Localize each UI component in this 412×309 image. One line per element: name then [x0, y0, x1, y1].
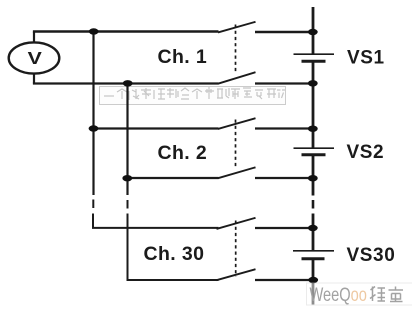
svg-text:VS30: VS30 — [347, 245, 396, 266]
wire vertical line A upper — [92, 32, 94, 196]
wire row3 right to bus — [255, 127, 313, 129]
battery VS30 plates — [293, 250, 334, 252]
node bus row4 — [308, 175, 318, 181]
switch S30b blade (Ch.30 bottom) — [217, 269, 256, 280]
wire row5 right to bus — [255, 227, 313, 229]
switch S2a blade (Ch.2 top) — [218, 118, 256, 129]
wire row1 right to bus — [255, 31, 313, 33]
battery VS1 plates — [294, 53, 335, 55]
watermark 维库 glyph strokes — [370, 287, 403, 303]
watermark CJK text strokes (top) — [104, 87, 285, 100]
svg-text:Ch. 30: Ch. 30 — [144, 243, 205, 265]
node bus row1 — [308, 29, 318, 35]
wire row1 left (Ch.1 top) — [33, 30, 219, 32]
wire bus top stub — [312, 7, 315, 54]
switch S1b blade (Ch.1 bottom) — [218, 72, 256, 84]
node bus row5 — [308, 225, 318, 231]
wire bus above VS30 — [312, 214, 315, 251]
wire row4 left (Ch.2 bottom) — [128, 177, 219, 179]
voltmeter V1 ellipse — [9, 42, 60, 73]
battery VS2 plates — [294, 147, 335, 149]
node A Ch.2 — [89, 125, 99, 131]
svg-text:WeeQoo: WeeQoo — [310, 283, 367, 306]
wire row2 left (Ch.1 bottom) — [33, 82, 219, 84]
watermark box (bottom right, translucent over bus) — [307, 283, 412, 305]
svg-text:VS2: VS2 — [347, 142, 385, 163]
wire vertical line B upper — [126, 84, 128, 196]
switch S2b blade (Ch.2 bottom) — [218, 167, 256, 178]
svg-text:Ch. 1: Ch. 1 — [158, 46, 208, 68]
node bus row3 — [308, 126, 318, 132]
wire bus below VS2 — [312, 155, 315, 196]
wire vertical line B break dash — [127, 200, 129, 209]
switch S30a blade (Ch.30 top) — [217, 218, 256, 229]
svg-text:V: V — [28, 49, 42, 69]
wire row5 left (Ch.30 top) with corner from line A — [93, 214, 219, 228]
node B top — [123, 80, 133, 86]
svg-text:VS1: VS1 — [347, 47, 385, 68]
wire bus between VS1 and VS2 — [312, 61, 315, 148]
node B Ch.2 — [122, 175, 132, 181]
switch S1a blade (Ch.1 top) — [218, 22, 256, 33]
switch S2 gang dashed link — [235, 120, 237, 168]
wire row6 left (Ch.30 bottom) with corner from line B — [128, 214, 219, 281]
switch S1 gang dashed link — [235, 25, 237, 74]
switch S30 gang dashed link — [235, 221, 237, 277]
wire voltmeter bottom lead — [33, 73, 35, 83]
wire row3 left (Ch.2 top) — [94, 127, 219, 129]
wire row4 right to bus — [255, 177, 313, 179]
wire bus bottom stub — [312, 259, 315, 305]
wire row6 right to bus — [255, 279, 313, 281]
node A top — [89, 28, 99, 34]
svg-text:Ch. 2: Ch. 2 — [158, 142, 208, 164]
node bus row2 — [308, 80, 318, 86]
wire voltmeter top lead — [33, 32, 35, 44]
wire row2 right to bus — [255, 82, 313, 84]
node bus row6 — [308, 277, 318, 283]
wire bus break dash — [312, 200, 315, 209]
wire vertical line A break dash — [92, 200, 94, 209]
watermark text box (top, under circuit) — [100, 87, 286, 105]
